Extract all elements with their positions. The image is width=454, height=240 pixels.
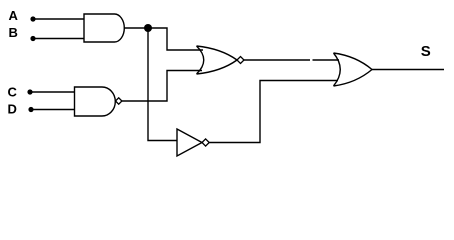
NAND gate U2 bubble (116, 98, 122, 104)
wire input C to NAND gate (30, 91, 75, 93)
NAND gate U2 body (75, 87, 116, 116)
NOT gate U4 bubble (202, 139, 209, 146)
wire NOT output up to OR gate bottom input (209, 81, 338, 143)
wire junction to NOR top input (148, 28, 203, 50)
OR gate U5 body (334, 53, 373, 86)
wire input D to NAND gate (31, 109, 75, 111)
wire junction down to NOT gate input (148, 28, 177, 141)
terminal dot input C (27, 89, 32, 94)
wire NOR output to OR gate top input (segment 2) (313, 59, 340, 61)
svg-text:C: C (8, 85, 18, 100)
AND gate U1 (84, 14, 124, 42)
terminal dot input D (28, 107, 33, 112)
terminal dot input A (30, 16, 35, 21)
NOR gate U3 body (197, 46, 238, 74)
wire OR output to S (372, 69, 444, 71)
wire input A to AND gate (33, 18, 84, 20)
terminal dot input B (30, 36, 35, 41)
wire input B to AND gate (33, 38, 84, 40)
NOR gate U3 bubble (237, 57, 244, 64)
svg-text:S: S (421, 43, 431, 60)
junction node (144, 24, 152, 32)
wire NAND output to NOR bottom input (122, 71, 202, 102)
wire NOR output to OR gate top input (segment 1) (244, 59, 310, 61)
svg-text:B: B (9, 25, 18, 40)
svg-text:A: A (9, 8, 19, 23)
svg-text:D: D (8, 102, 17, 117)
NOT gate U4 triangle (177, 129, 202, 156)
wire AND output to junction (124, 27, 148, 29)
